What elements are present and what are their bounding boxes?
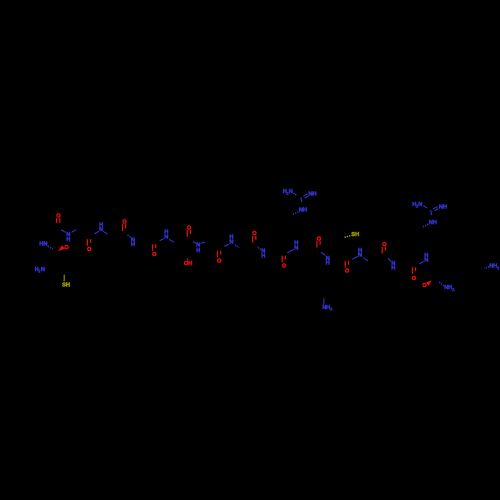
bond CH2-S vertical <box>63 275 65 282</box>
double bond C=O 2 <box>122 224 124 231</box>
bond CH2 to NH2 (lysine) <box>323 298 325 304</box>
svg-text:H: H <box>355 232 359 238</box>
svg-text:O: O <box>217 258 222 264</box>
hashed bond N6 to carbonyl C6 <box>257 247 261 250</box>
bond guanidinium C down to NH (arg 2) <box>430 210 433 215</box>
double bond C=O 1 <box>86 239 88 246</box>
svg-text:N: N <box>418 202 422 208</box>
double bond C=O 9 <box>344 261 346 268</box>
double bond C=O 8 <box>316 241 318 248</box>
bond N9 to carbonyl C9 <box>352 256 357 259</box>
bond N10 to carbonyl C10 <box>388 258 391 261</box>
bond N5 to carbonyl C5 <box>224 244 229 246</box>
hashed bond NH to CH2 (arg 2) <box>422 224 428 227</box>
svg-text:H: H <box>66 237 70 243</box>
bond guanidinium C down to NH (arg 1) <box>300 197 303 202</box>
red wedge bond C-O (right) <box>426 281 432 286</box>
svg-text:H: H <box>188 261 192 267</box>
bond N1 to carbonyl C1 <box>94 231 99 234</box>
hashed bond C to amide NH2 (right) <box>439 282 444 286</box>
double bond C=O 7 <box>281 256 283 263</box>
hashed bond N2 to carbonyl C2 <box>127 235 131 238</box>
svg-text:N: N <box>229 240 233 246</box>
svg-text:N: N <box>358 253 362 259</box>
hashed bond from HN to stereocenter <box>48 246 53 249</box>
svg-text:HN: HN <box>39 242 47 248</box>
hashed bond NH to CH2 (arg 1) <box>293 212 298 214</box>
bond N1 to alpha C <box>103 231 108 234</box>
bond N4 to carbonyl C4 <box>193 242 196 244</box>
bond N3 to carbonyl C3 <box>160 239 164 241</box>
svg-text:H: H <box>433 220 437 226</box>
svg-text:N: N <box>164 234 168 240</box>
bond N9 to alpha C <box>363 258 368 261</box>
svg-text:O: O <box>412 276 417 282</box>
svg-text:N: N <box>289 189 293 195</box>
bond H2N to guanidinium C (arg 1) <box>293 193 296 195</box>
double bond C=O 3 <box>152 244 154 251</box>
hashed bond CH2 to NH2 (right side chain) <box>484 267 489 269</box>
svg-text:H: H <box>196 248 200 254</box>
svg-text:H: H <box>312 192 316 198</box>
double bond C=O 5 <box>217 251 219 258</box>
double bond C=O 0 <box>56 218 58 223</box>
double bond C=O 6 <box>252 236 254 243</box>
svg-text:O: O <box>345 269 350 275</box>
bond N3 to alpha C <box>169 239 174 242</box>
imine double bond C=N (arg 2) <box>433 207 437 209</box>
svg-text:N: N <box>99 227 103 233</box>
double bond C=O 11 <box>411 267 413 274</box>
bond N4 to alpha C <box>201 242 206 244</box>
svg-text:O: O <box>422 283 427 289</box>
bond N8 to carbonyl C8 <box>321 252 325 256</box>
svg-text:H: H <box>303 208 307 214</box>
hashed bond N5 to alpha C <box>235 245 239 248</box>
bond H2N to guanidinium C (arg 2) <box>423 206 427 208</box>
hashed bond CH2-S 2 <box>345 236 351 238</box>
svg-text:H: H <box>326 260 330 266</box>
svg-text:H: H <box>391 265 395 271</box>
bond N7 to carbonyl C7 <box>287 249 294 252</box>
svg-text:N: N <box>424 257 428 263</box>
bond N(A) to alpha C <box>72 230 76 233</box>
svg-text:O: O <box>282 263 287 269</box>
svg-text:H: H <box>443 205 447 211</box>
bond N11 to carbonyl C11 <box>419 262 424 264</box>
bond N(A) to carbonyl C0 <box>61 230 65 233</box>
imine double bond C=N (arg 1) <box>303 194 307 196</box>
double bond C=O 4 <box>186 230 188 237</box>
svg-text:N: N <box>294 245 298 251</box>
svg-text:H: H <box>66 282 70 288</box>
double bond C=O 10 <box>381 247 383 254</box>
svg-text:O: O <box>382 242 387 248</box>
svg-text:H: H <box>261 254 265 260</box>
svg-text:O: O <box>87 247 92 253</box>
svg-text:N: N <box>41 267 45 273</box>
svg-text:O: O <box>64 245 69 251</box>
red wedge bond C-O (left) <box>58 245 65 251</box>
svg-text:H: H <box>131 242 135 248</box>
svg-text:O: O <box>152 252 157 258</box>
bond C-OH <box>187 259 189 261</box>
